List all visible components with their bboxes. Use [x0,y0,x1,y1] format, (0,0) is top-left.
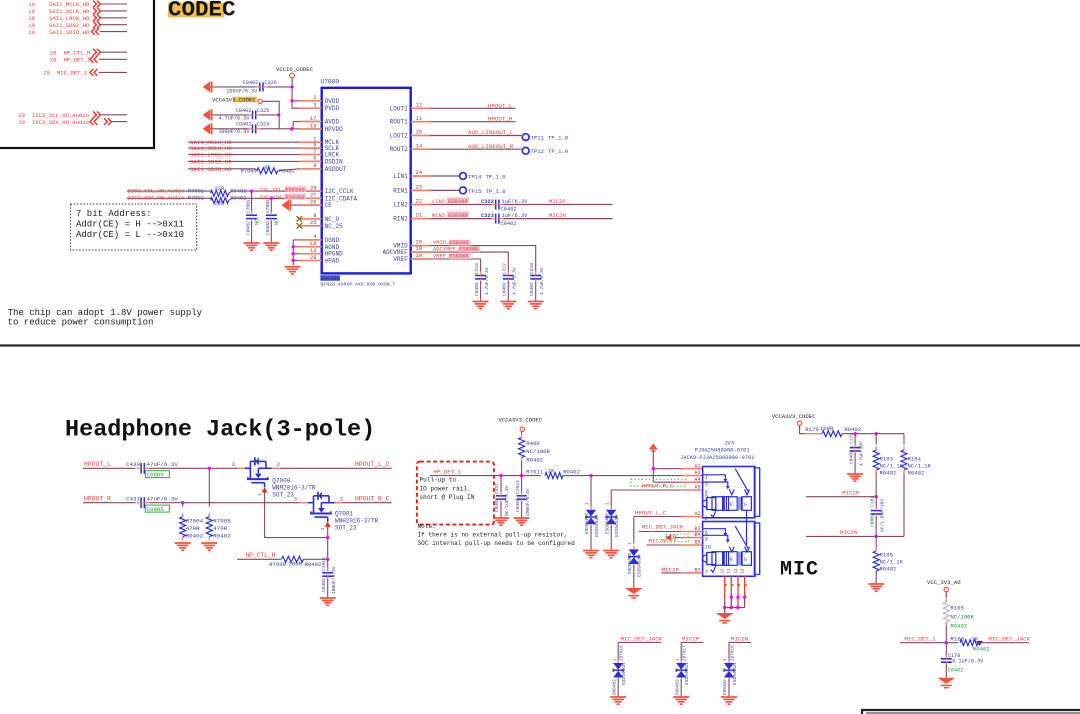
svg-text:NC/100R: NC/100R [526,448,550,455]
svg-text:ESD9451N: ESD9451N [684,663,690,685]
svg-text:C0402: C0402 [501,221,517,227]
svg-text:R0402: R0402 [563,468,580,475]
resistor R7005 470R [208,468,210,506]
svg-text:1: 1 [320,527,326,530]
ground arrow on CE pin [282,200,290,211]
svg-text:C316: C316 [474,263,480,274]
svg-text:R7000: R7000 [241,168,257,174]
svg-text:24: 24 [416,170,422,176]
jack internal contact lines upper [703,475,726,480]
wire VCCA3V3 to R179 [800,425,805,433]
capacitor C7002 on SDA [270,198,272,212]
svg-text:C437: C437 [494,483,500,494]
pin 21 RIN2 [411,218,431,220]
svg-text:18: 18 [310,241,316,247]
svg-text:20: 20 [50,57,57,64]
svg-text:HPOUT_L_C: HPOUT_L_C [635,509,667,516]
ground for R7005 [201,542,217,544]
svg-text:11: 11 [416,116,422,122]
svg-text:G: G [744,502,747,508]
svg-text:L: L [715,502,718,508]
svg-text:MIC2N: MIC2N [549,212,566,219]
jack G wire between boxes [746,510,748,545]
svg-text:G: G [730,584,736,587]
wire net MIC2P to LIN2 [503,204,612,206]
jack plug symbol upper [703,500,707,508]
wire net HPOUT_L [431,107,516,109]
capacitor C7016 100nF [327,559,329,570]
wire Q7001 source to junction [327,527,329,559]
svg-text:MIC2N: MIC2N [731,635,749,642]
pin 7 LRCK [300,154,322,156]
svg-text:47uF/6.3V: 47uF/6.3V [147,461,179,468]
svg-text:3: 3 [232,461,235,468]
svg-text:100nF/6.3V: 100nF/6.3V [218,129,250,135]
svg-text:4.7uF/6.3V: 4.7uF/6.3V [539,267,545,295]
svg-text:1: 1 [585,502,590,505]
svg-text:22R: 22R [215,201,225,207]
svg-text:MIC2N: MIC2N [840,529,858,536]
capacitor C318 4.7uF [530,275,541,277]
svg-text:C0402: C0402 [246,221,252,235]
svg-text:MIC_DET_JACK: MIC_DET_JACK [988,636,1030,643]
junction I2C SDA [270,197,273,200]
svg-text:6: 6 [313,156,316,162]
svg-text:20: 20 [43,70,50,77]
svg-text:NC_25: NC_25 [325,223,343,230]
svg-text:SAI1_SD02_HO: SAI1_SD02_HO [190,158,232,165]
ground for D7002 [625,588,643,594]
svg-text:C0402: C0402 [474,282,480,296]
svg-text:VCCA3V3_CODEC: VCCA3V3_CODEC [499,417,543,424]
svg-text:1: 1 [257,493,263,496]
svg-text:ES8388: ES8388 [321,276,340,282]
pin 29 ePAD [300,260,322,262]
ground for C178 [937,678,955,684]
svg-text:100nF/6.3V: 100nF/6.3V [226,89,258,95]
svg-text:R0402: R0402 [305,561,322,568]
wire VCCIO to DVDD PVDD [291,78,293,101]
wire ground bus DGND AGND HPGND ePAD [292,240,294,266]
svg-text:D90402: D90402 [675,679,680,695]
capacitor C179 4.7uF [854,434,856,445]
wire net ADCVREF_ES8388 [431,252,509,272]
svg-text:R7011: R7011 [526,468,543,475]
wire net VMID_ES8388 [431,246,536,272]
svg-text:ePAD: ePAD [325,258,340,265]
svg-text:ZD7016: ZD7016 [620,645,625,661]
svg-text:27: 27 [310,193,316,199]
ground for C7016 [320,597,336,599]
wire net HP_DET_1 [430,475,541,477]
svg-text:C0402: C0402 [529,282,535,296]
pin 27 I2C_CDATA [300,197,322,199]
svg-text:HPOUT_L_C: HPOUT_L_C [355,461,390,468]
svg-text:MIC_DET_JACK: MIC_DET_JACK [642,524,684,531]
svg-text:19: 19 [18,119,25,126]
svg-text:14: 14 [735,568,739,574]
svg-text:WNH2016-3/TR: WNH2016-3/TR [335,518,379,525]
ground for C317 [500,301,516,303]
svg-text:C179: C179 [848,433,854,444]
svg-text:NC/100K: NC/100K [950,614,974,621]
svg-text:7 bit Address:: 7 bit Address: [76,209,152,219]
power flag VCCA3V3_CODEC with highlight [233,97,257,103]
svg-text:HP_CTL_H: HP_CTL_H [246,552,276,559]
ground for R185 [868,583,884,585]
svg-text:A4: A4 [694,477,700,483]
capacitor C187 NC [875,497,877,508]
svg-text:15: 15 [722,568,726,574]
svg-text:C0802: C0802 [869,513,875,527]
no-connect X on NC_9 [297,216,303,222]
svg-text:C0805: C0805 [147,506,165,513]
svg-text:NC/1.1K: NC/1.1K [880,463,904,470]
junction HP_DET R400 [520,474,523,477]
svg-text:NC/1.0uF/10V: NC/1.0uF/10V [879,499,885,532]
wire net MIC2N right [806,535,904,537]
ground arrow for C325 [203,109,211,120]
note box pull-up dashed red [417,462,494,525]
ground for C7013 [514,517,530,519]
svg-text:HPOUT_L: HPOUT_L [84,461,111,468]
svg-text:4.7uF/10V: 4.7uF/10V [858,441,864,466]
svg-text:Note:: Note: [418,523,436,530]
green selection box B4 [666,534,689,541]
wire net MIC_DET_1 [900,642,958,644]
svg-text:C324: C324 [257,122,269,128]
resistor R183 NC/1.1K [875,434,877,445]
svg-text:HPOUT_R_C: HPOUT_R_C [642,483,674,490]
svg-text:14: 14 [416,143,422,149]
ground for C7001 [244,242,260,244]
svg-text:I2C_SCL_ES8388: I2C_SCL_ES8388 [259,188,304,194]
svg-text:ESD9451N: ESD9451N [594,515,600,537]
svg-text:G: G [744,557,747,563]
pin 3 PVDD [300,107,322,109]
capacitor C316 4.7uF [475,275,486,277]
svg-text:G: G [743,584,749,587]
pin 19 ADCVREF [411,251,431,253]
svg-text:C0402: C0402 [321,578,327,592]
svg-text:10: 10 [416,253,422,259]
tvs diode D7001 on HPOUT_R_C [610,490,612,508]
svg-text:VCCA3V3_CODEC: VCCA3V3_CODEC [772,413,816,420]
svg-text:C7016: C7016 [321,557,327,571]
net label I2C_SCL_ES8388 highlighted [285,186,307,192]
jack switch diagonal upper [735,469,749,493]
svg-text:4.7uF/6.3V: 4.7uF/6.3V [218,116,250,122]
svg-text:R0402: R0402 [880,470,897,477]
svg-text:13: 13 [310,248,316,254]
svg-text:PJ3A25080980-0701: PJ3A25080980-0701 [695,448,750,454]
svg-text:1: 1 [675,658,680,661]
pin 10 VREF [411,258,431,260]
svg-text:2: 2 [340,495,343,502]
svg-text:20: 20 [416,240,422,246]
svg-text:C0402: C0402 [494,498,500,512]
svg-text:C0402: C0402 [243,80,259,86]
resistor R7004 470R [182,503,184,507]
title CODEC highlight [168,3,225,18]
resistor R184 NC/1.1K [903,434,905,445]
jack internal contact lines lower [703,529,726,534]
pin 4 DGND [300,239,322,241]
svg-text:MIC_DET_JACK: MIC_DET_JACK [621,635,663,642]
pin 1 MCLK [300,141,322,143]
svg-text:A3: A3 [694,470,700,476]
svg-text:ZD7018: ZD7018 [730,645,735,661]
svg-text:RIN1: RIN1 [393,187,408,194]
ground for C318 [528,301,544,303]
svg-text:HPOUT_R: HPOUT_R [488,116,513,123]
svg-text:HP_CTL_H: HP_CTL_H [64,49,91,56]
svg-text:R400: R400 [526,440,540,447]
tvs diode D7000 on HP_DET [590,476,592,508]
svg-text:100R: 100R [820,425,834,432]
svg-text:G: G [736,584,742,587]
svg-text:9: 9 [313,213,316,219]
wire net MIC_DET_JACK right [978,642,1029,644]
svg-text:C0402: C0402 [502,282,508,296]
wire net MIC2P right [806,496,876,498]
svg-text:C317: C317 [502,263,508,274]
svg-text:R7009: R7009 [269,561,286,568]
label C0805 green boxed 2 [145,505,169,512]
wire net MIC2N bottom [729,641,751,643]
svg-text:LIN2: LIN2 [393,202,408,209]
wire net HPOUT_R_C to jack A5 [611,489,681,491]
svg-text:D90402: D90402 [723,679,728,695]
no-connect X on NC_25 [297,223,303,229]
pin 26 CE [300,204,322,206]
wire net SAI1_SCLK_HO [188,147,300,149]
resistor R7002 22R R0402 [211,197,229,203]
svg-text:C0402: C0402 [948,667,964,673]
svg-text:NC: NC [274,219,280,225]
svg-text:22R: 22R [215,186,225,192]
svg-text:A1: A1 [694,463,700,469]
svg-text:VCCIO_CODEC: VCCIO_CODEC [276,66,314,73]
wire HPOUT_L to Q7000 [149,467,238,469]
svg-text:19: 19 [28,29,35,36]
svg-text:DVDD: DVDD [325,98,340,105]
svg-text:C0402: C0402 [501,207,517,213]
wire net SAI1_LRCK_HO [188,154,300,156]
tvs diode D7002 on HPOUT_L_C [629,549,639,556]
svg-text:4.7uF/6.3V: 4.7uF/6.3V [512,267,518,295]
svg-text:AVDD: AVDD [325,119,340,126]
svg-text:R7005: R7005 [213,518,231,525]
svg-text:9: 9 [705,536,708,542]
pin 5 SCLK [300,147,322,149]
ground for jack [716,613,734,619]
green selection box HPOUT_R_C [631,479,686,486]
svg-text:Pull-up to: Pull-up to [420,477,457,484]
svg-text:MIC2N: MIC2N [648,537,666,544]
svg-text:R183: R183 [880,456,893,463]
svg-text:8: 8 [313,163,316,169]
svg-text:MIC_DET_1: MIC_DET_1 [904,636,936,643]
svg-text:HPOUT_R_C: HPOUT_R_C [355,495,390,502]
svg-text:AUD_LINEOUT_L: AUD_LINEOUT_L [468,129,514,136]
svg-text:NC/1.1K: NC/1.1K [880,559,904,566]
svg-text:RIN2: RIN2 [393,216,408,223]
ground arrow for C326 [203,81,211,92]
jack right strip upper [754,468,759,517]
svg-text:C318: C318 [529,263,535,274]
jack switch diagonal lower [735,526,749,550]
svg-text:B3: B3 [694,526,700,532]
capacitor C178 [945,643,947,656]
svg-text:28: 28 [310,185,316,191]
svg-text:C0402: C0402 [515,498,521,512]
svg-text:JV3: JV3 [724,439,734,446]
junction HPOUT_R [181,501,184,504]
net label RIN2_ES8388 highlighted [431,218,492,220]
svg-text:WNM2016-3/TR: WNM2016-3/TR [272,485,316,492]
svg-text:20: 20 [50,49,57,56]
svg-text:HPOUT_L: HPOUT_L [488,102,513,109]
wire net RIN1 test point TP15 [431,189,460,191]
svg-text:LOUT2: LOUT2 [390,133,408,140]
jack plug pin7 contact lower [711,565,716,572]
svg-text:DSDIN: DSDIN [325,158,343,165]
svg-text:MIC2P: MIC2P [662,566,680,573]
title block frame corner [862,710,1080,714]
svg-text:10: 10 [705,545,711,551]
svg-text:LIN1: LIN1 [393,173,408,180]
svg-text:MIC2P: MIC2P [682,635,700,642]
capacitor C317 4.7uF [503,275,514,277]
svg-text:ESD9451N: ESD9451N [621,663,627,685]
svg-text:100nF/6.3V: 100nF/6.3V [331,566,337,594]
ground for MIC_DET_JACK diode [610,696,626,698]
svg-text:R165: R165 [950,605,963,612]
svg-text:NC/1.1K: NC/1.1K [908,463,932,470]
junction at Q7001 source [326,536,329,539]
svg-text:VCCA3V3_CODEC: VCCA3V3_CODEC [212,96,256,103]
wire net HPOUT_R [431,121,516,123]
svg-text:U7000: U7000 [321,79,340,86]
svg-text:3: 3 [294,495,297,502]
svg-text:ESD9451N: ESD9451N [637,555,643,577]
svg-text:B2: B2 [694,568,700,574]
jack right strip lower [754,523,759,575]
svg-text:I2C3_SDA_HO_Audio: I2C3_SDA_HO_Audio [127,195,184,202]
svg-text:2: 2 [277,461,280,468]
svg-text:TP15: TP15 [468,188,481,195]
junction MIC2N [875,535,878,538]
svg-text:16: 16 [310,123,316,129]
svg-text:C325: C325 [257,108,269,114]
svg-text:R: R [730,557,733,563]
svg-text:23: 23 [416,185,422,191]
ground for chip [284,266,300,268]
wire net SAI1_SDIO_HO with resistor R7000 [188,168,255,170]
svg-text:Q7001: Q7001 [335,511,353,518]
svg-text:CODEC: CODEC [168,0,236,23]
svg-text:VREF: VREF [393,256,408,263]
connector jack box upper [703,467,755,518]
net label I2C_SDA_ES8388 highlighted [285,193,307,199]
note box 7-bit address [71,204,197,250]
pin 11 ROUT1 [411,121,431,123]
svg-text:I2C3_SDA_HO_Audio: I2C3_SDA_HO_Audio [32,119,89,126]
svg-text:ESD9451N: ESD9451N [614,515,620,537]
wire VCCA3V3 rail [262,101,299,129]
ground for D7000 [583,550,599,552]
pin 18 AGND [300,246,322,248]
jack plug pin2 contact upper [711,510,716,517]
svg-text:1K: 1K [548,468,555,475]
svg-text:1: 1 [723,658,728,661]
pin 9 NC_9 [300,218,322,220]
pin 22 LIN2 [411,204,431,206]
svg-text:TP_1.0: TP_1.0 [548,148,569,155]
junction HPOUT_L [208,467,211,470]
junction MIC_DET [945,641,948,644]
wire net VREF_ES8388 [431,259,481,272]
net label LIN2_ES8388 highlighted [431,204,492,206]
capacitor C7013 100nF [521,476,523,493]
svg-text:R7004: R7004 [186,518,204,525]
wire net HPOUT_R_C [342,502,392,504]
ground for MIC2P diode [673,696,689,698]
svg-text:5: 5 [313,142,316,148]
svg-text:Headphone Jack(3-pole): Headphone Jack(3-pole) [65,417,375,444]
pin 14 ROUT2 [411,148,431,150]
svg-text:ESD90402: ESD90402 [605,513,610,534]
capacitor C437 NC [500,476,502,493]
wire HPOUT_R to Q7001 [149,502,300,504]
svg-text:If there is no external pull-u: If there is no external pull-up resistor… [418,532,568,539]
wire net HPOUT_L_C [280,467,392,469]
svg-text:7: 7 [705,570,708,576]
svg-text:17: 17 [310,116,316,122]
jack plug symbol lower [703,555,707,563]
label C0805 green boxed [145,471,169,478]
svg-text:NC_9: NC_9 [325,216,340,223]
svg-text:TP11: TP11 [531,135,545,142]
capacitor C324 [252,124,254,133]
svg-text:19: 19 [416,246,422,252]
ground for D7001 [603,550,619,552]
svg-text:15: 15 [416,130,422,136]
svg-text:AUD_LINEOUT_R: AUD_LINEOUT_R [468,143,514,150]
svg-text:SOT_23: SOT_23 [272,492,294,499]
pin 15 LOUT2 [411,135,431,137]
svg-text:1: 1 [612,658,617,661]
svg-text:B4: B4 [694,532,700,538]
svg-text:NC/1uF/6.3V: NC/1uF/6.3V [504,485,510,516]
svg-text:D90402: D90402 [612,679,617,695]
wire net AUD_LINEOUT_R with test point TP12 [431,148,522,150]
wire net MIC2P bottom [681,641,703,643]
svg-text:TP_1.0: TP_1.0 [486,188,507,195]
jack pin B2 MIC2P [661,572,681,574]
svg-text:NC: NC [255,219,261,225]
svg-text:26: 26 [310,199,316,205]
op-amp U7000 codec chip body ES8388 [322,88,411,274]
svg-text:R7002: R7002 [188,196,204,202]
svg-text:C0402: C0402 [265,221,271,235]
resistor R165 NC/100K [945,592,947,598]
wire MIC bias rail [842,433,904,435]
svg-text:0R: 0R [264,165,271,171]
svg-text:TP14: TP14 [468,173,482,180]
svg-text:4: 4 [313,234,316,240]
